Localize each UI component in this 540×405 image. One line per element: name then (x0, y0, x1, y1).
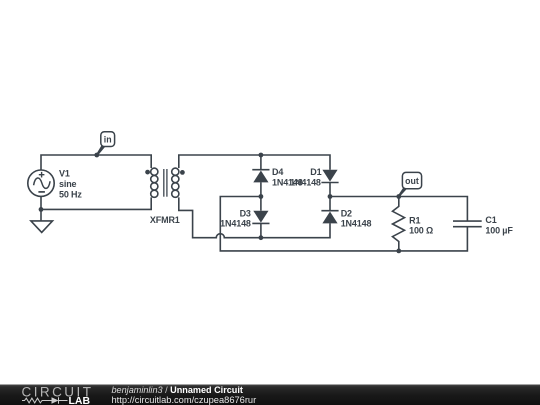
wire bridge left vertical middle (260, 182, 262, 210)
node out label (399, 172, 422, 196)
wire V1 bottom to ground (40, 196, 42, 221)
transformer XFMR1 primary winding (151, 168, 158, 197)
wire output top rail (330, 197, 467, 222)
diode D3 (252, 211, 269, 224)
svg-text:1N4148: 1N4148 (220, 219, 251, 229)
svg-text:V1: V1 (59, 168, 70, 178)
wire bridge left vertical top (260, 155, 262, 170)
wire primary bottom rail (41, 197, 151, 209)
diode D1 (321, 170, 338, 183)
node junction dot V1 bottom (39, 207, 44, 212)
wire top rail primary side (41, 155, 151, 170)
svg-text:1N4148: 1N4148 (341, 218, 372, 228)
label C1 100uF (485, 215, 513, 235)
label R1 100 ohm (409, 215, 433, 235)
svg-text:D2: D2 (341, 209, 352, 219)
node dot in (94, 153, 99, 158)
diode D2 (321, 211, 338, 224)
node dot out (396, 194, 401, 199)
label V1 sine 50 Hz (59, 168, 82, 199)
svg-text:50 Hz: 50 Hz (59, 189, 82, 199)
wire top rail secondary side (179, 155, 330, 170)
svg-text:http://circuitlab.com/czupea86: http://circuitlab.com/czupea8676rur (112, 395, 257, 405)
svg-text:in: in (104, 135, 112, 145)
svg-text:XFMR1: XFMR1 (150, 215, 180, 225)
node dot bridge mid left (259, 194, 264, 199)
node dot bridge mid right (328, 194, 333, 199)
svg-text:D1: D1 (310, 167, 321, 177)
label D2 (341, 209, 372, 229)
label D3 (220, 209, 251, 229)
transformer core (164, 169, 167, 197)
capacitor C1 (453, 221, 482, 227)
svg-text:100 µF: 100 µF (485, 225, 513, 235)
diode D4 (252, 170, 269, 183)
svg-text:R1: R1 (409, 215, 420, 225)
node dot bridge bottom left (259, 235, 264, 240)
node in label (97, 132, 115, 156)
svg-text:100 Ω: 100 Ω (409, 226, 433, 236)
svg-text:benjaminlin3 / Unnamed Circuit: benjaminlin3 / Unnamed Circuit (112, 385, 243, 395)
node dot R1 bottom (396, 249, 401, 254)
wire bridge left vertical bottom (260, 223, 262, 237)
wire secondary bottom path with hop (179, 197, 330, 237)
logo resistor diode icon (22, 397, 68, 403)
label D1 (290, 167, 321, 188)
wire bridge right vertical middle (329, 183, 331, 211)
svg-text:C1: C1 (485, 215, 496, 225)
svg-text:1N4148: 1N4148 (290, 178, 321, 188)
footer bar (0, 385, 540, 405)
svg-text:D4: D4 (272, 167, 283, 177)
node dot bridge top left (259, 153, 264, 158)
transformer polarity dot secondary (180, 170, 185, 175)
svg-text:D3: D3 (240, 209, 251, 219)
svg-text:LAB: LAB (69, 395, 91, 405)
transformer XFMR1 secondary winding (172, 168, 179, 197)
label D4 (272, 167, 303, 188)
resistor R1 (393, 197, 405, 251)
transformer polarity dot primary (145, 170, 150, 175)
voltage source V1 (28, 170, 54, 196)
svg-text:out: out (405, 176, 419, 186)
wire bridge output left U path (220, 197, 467, 251)
ground (31, 221, 53, 233)
svg-text:sine: sine (59, 179, 77, 189)
